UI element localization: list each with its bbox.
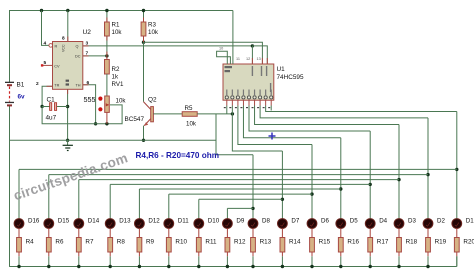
wire: R3 node line to 595 (142, 41, 263, 65)
node bottom R19 (426, 265, 429, 268)
battery B1 (5, 82, 14, 107)
wire: ground rail (10, 139, 217, 141)
LED D16 (14, 219, 24, 229)
svg-text:D9: D9 (236, 218, 244, 225)
LED D3 (394, 219, 404, 229)
svg-text:D4: D4 (379, 218, 387, 225)
svg-text:D16: D16 (28, 218, 40, 225)
node bottom R17 (369, 265, 372, 268)
svg-text:4u7: 4u7 (46, 115, 57, 122)
wire: output fan to D1 (266, 106, 457, 112)
node bottom R14 (281, 265, 284, 268)
svg-text:D5: D5 (350, 218, 358, 225)
svg-text:TH: TH (75, 84, 80, 88)
wire: column D15 (48, 175, 50, 219)
resistor R8 (108, 228, 113, 266)
wire: bus D10 to D7 (199, 198, 283, 200)
svg-text:VCC: VCC (62, 44, 66, 52)
capacitor C1 (42, 103, 68, 111)
svg-text:R14: R14 (289, 238, 301, 245)
svg-text:D7: D7 (291, 218, 299, 225)
svg-text:D2: D2 (437, 218, 445, 225)
wire: R5 to 595 column (197, 112, 234, 115)
svg-text:10k: 10k (112, 29, 123, 36)
wire: 555 GND pin down to rail (66, 89, 69, 142)
svg-text:R7: R7 (85, 238, 94, 245)
svg-text:R15: R15 (319, 238, 331, 245)
svg-text:13: 13 (257, 57, 261, 61)
wire: 555 Q pin3 line to 595 (83, 44, 267, 64)
LED D2 (423, 219, 433, 229)
svg-text:D12: D12 (148, 218, 160, 225)
LED D8 (248, 219, 258, 229)
node bottom R8 (109, 265, 112, 268)
wire: bus D15 to D2 (49, 174, 428, 176)
wire: output fan to D5 (243, 106, 340, 138)
LED D1 (452, 219, 462, 229)
svg-text:12: 12 (246, 57, 250, 61)
shift register U1 74HC595 (223, 64, 274, 100)
595 bottom pin stubs (224, 100, 271, 108)
LED D14 (74, 219, 84, 229)
LED D5 (336, 219, 346, 229)
resistor R6 (46, 228, 51, 266)
wire: bus D9 to D8 (227, 207, 253, 209)
svg-text:D14: D14 (88, 218, 100, 225)
wire: column D6 (311, 145, 313, 219)
svg-text:6v: 6v (18, 94, 26, 101)
svg-text:R19: R19 (435, 238, 447, 245)
resistor R18 (397, 228, 402, 266)
svg-text:U2: U2 (83, 29, 92, 36)
wire: column D16 (18, 169, 20, 218)
svg-text:R4: R4 (26, 238, 35, 245)
wire: column D4 (369, 131, 371, 219)
svg-text:R3: R3 (148, 22, 156, 29)
svg-text:10k: 10k (148, 29, 159, 36)
svg-text:R11: R11 (205, 238, 217, 245)
svg-text:D6: D6 (321, 218, 329, 225)
wire: column D3 (398, 125, 400, 219)
svg-text:74HC595: 74HC595 (277, 74, 304, 81)
svg-text:R13: R13 (260, 238, 272, 245)
resistor R17 (368, 228, 373, 266)
595 inside markings (225, 66, 273, 99)
svg-text:RV1: RV1 (112, 81, 124, 88)
wire: 555 pin6 TH drop (83, 85, 98, 126)
wire: bus D16 to D1 (19, 168, 457, 170)
node bottom R9 (138, 265, 141, 268)
svg-text:R17: R17 (377, 238, 389, 245)
LED D4 (365, 219, 375, 229)
resistor R10 (166, 228, 171, 266)
wire: column D12 (138, 189, 140, 219)
svg-text:R10: R10 (175, 238, 187, 245)
LED D7 (278, 219, 288, 229)
resistor R13 (251, 228, 256, 266)
LED D12 (135, 219, 145, 229)
resistor R9 (137, 228, 142, 266)
svg-text:Q2: Q2 (148, 97, 157, 104)
LED D11 (164, 219, 174, 229)
svg-text:U1: U1 (277, 66, 286, 73)
LED D13 (105, 219, 115, 229)
wire: 555 pin5 stub (42, 64, 52, 66)
wire: pin9 stub (270, 106, 272, 111)
svg-text:D11: D11 (178, 218, 189, 225)
wire: output fan to D7 (232, 106, 282, 152)
resistor R2 (105, 60, 110, 97)
wire: 555 pin2 TR to C1 (40, 86, 52, 108)
svg-text:1k: 1k (112, 74, 119, 81)
LED D6 (307, 219, 317, 229)
wire: VCC drop to 555 pin8 (66, 9, 69, 42)
svg-text:B1: B1 (17, 82, 25, 89)
wire: rail to 555 pin4 reset (40, 9, 53, 47)
555 red pin stubs (47, 18, 144, 95)
resistor R7 (76, 228, 81, 266)
wire: bus D13 to D4 (110, 183, 370, 185)
svg-text:4: 4 (44, 40, 47, 46)
wire: pin1 stub (226, 106, 228, 114)
potentiometer RV1 (98, 96, 109, 124)
resistor R3 (141, 9, 146, 42)
wire: column D5 (340, 138, 342, 219)
node bottom R18 (397, 265, 400, 268)
svg-text:Q: Q (76, 45, 79, 49)
node bottom R10 (167, 265, 170, 268)
wire: MR OE bracket (217, 51, 231, 64)
node bottom R16 (339, 265, 342, 268)
resistor R20 (454, 228, 459, 266)
node bottom R12 (226, 265, 229, 268)
node bottom R15 (310, 265, 313, 268)
svg-text:DC: DC (75, 55, 81, 59)
node bottom R4 (17, 265, 20, 268)
resistor R1 (105, 9, 110, 56)
svg-text:R9: R9 (146, 238, 155, 245)
svg-text:2: 2 (36, 81, 39, 87)
svg-text:CV: CV (54, 65, 60, 69)
svg-text:R4,R6 - R20=470 ohm: R4,R6 - R20=470 ohm (136, 151, 220, 160)
svg-text:8: 8 (62, 36, 65, 42)
resistor R4 (17, 228, 22, 266)
svg-text:D15: D15 (58, 218, 70, 225)
ground (63, 140, 73, 150)
wire: column D14 (78, 180, 80, 219)
wire: output fan to D4 (249, 106, 370, 132)
svg-text:D3: D3 (408, 218, 416, 225)
LED D15 (44, 219, 54, 229)
svg-text:R18: R18 (406, 238, 418, 245)
svg-text:D10: D10 (208, 218, 220, 225)
node bottom R11 (197, 265, 200, 268)
wire: output fan to D3 (255, 106, 399, 125)
svg-text:R8: R8 (117, 238, 126, 245)
LED D10 (194, 219, 204, 229)
svg-text:circuitspedia.com: circuitspedia.com (12, 150, 130, 203)
wire: 555 DC pin7 to R1 R2 node (83, 54, 109, 57)
node bottom R7 (77, 265, 80, 268)
plus marker (269, 133, 276, 140)
wire: bus D12 to D5 (139, 188, 340, 190)
svg-text:11: 11 (236, 57, 240, 61)
svg-text:10: 10 (219, 47, 223, 51)
svg-text:D1: D1 (466, 218, 474, 225)
resistor R11 (196, 228, 201, 266)
svg-text:555: 555 (84, 95, 96, 104)
svg-text:BC547: BC547 (125, 116, 145, 123)
svg-text:10k: 10k (116, 98, 127, 105)
wire: column D8 (252, 155, 254, 219)
svg-text:10k: 10k (186, 121, 197, 128)
resistor R14 (280, 228, 285, 266)
resistor R19 (426, 228, 431, 266)
resistor R5 (182, 112, 197, 117)
resistor R15 (310, 228, 315, 266)
wire: top rail drop to 595 clock (232, 11, 234, 65)
wire: bus D14 to D3 (79, 179, 399, 181)
svg-text:C1: C1 (47, 97, 56, 104)
wire: output fan to D2 (260, 106, 428, 118)
wire: column D2 (427, 118, 429, 219)
node bottom R13 (251, 265, 254, 268)
wire: column D13 (109, 184, 111, 218)
svg-text:R16: R16 (347, 238, 359, 245)
svg-text:R2: R2 (112, 66, 120, 73)
wire: column D10 (198, 199, 200, 218)
wire: Q2 to R5 (153, 113, 182, 115)
wire: bus D11 to D6 (169, 193, 312, 195)
wire: C1 bottom line with RV1 loop (42, 105, 122, 126)
svg-text:R6: R6 (55, 238, 64, 245)
wire: column D11 (168, 194, 170, 219)
resistor R16 (338, 228, 343, 266)
595 top pin stubs (219, 47, 267, 65)
pin number labels 555 (36, 36, 90, 88)
svg-text:R20: R20 (463, 238, 474, 245)
resistor R12 (225, 228, 230, 266)
svg-text:D8: D8 (262, 218, 270, 225)
wire: output fan to D6 (238, 106, 312, 145)
wire: column D1 (456, 112, 458, 219)
svg-text:R12: R12 (234, 238, 246, 245)
LED D9 (223, 219, 233, 229)
svg-text:R1: R1 (112, 22, 120, 29)
svg-text:D13: D13 (119, 218, 131, 225)
svg-text:R: R (55, 45, 58, 49)
node bottom R6 (47, 265, 50, 268)
wire: left border battery column top (9, 10, 11, 82)
wire: top VCC rail (10, 10, 233, 12)
wire: bottom return bus (10, 266, 457, 268)
wire: D8 feed drop (216, 114, 253, 155)
svg-text:TR: TR (54, 84, 59, 88)
svg-text:R5: R5 (185, 105, 193, 112)
transistor Q2 BC547 (142, 102, 154, 142)
wire: column D7 (281, 151, 283, 219)
wire: base line from R3 node down to Q2 (143, 42, 145, 102)
wire: column D9 (226, 208, 228, 218)
timer U2 555 (53, 42, 83, 90)
wire: left border battery column bottom (9, 106, 11, 267)
